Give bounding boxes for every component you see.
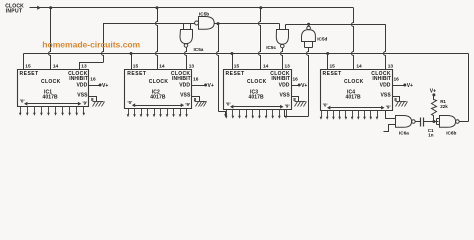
wire IC4 out9 to IC6a bbox=[386, 111, 396, 119]
label C1 value bbox=[428, 128, 434, 138]
wire clock bus bbox=[30, 7, 354, 9]
svg-text:V+: V+ bbox=[301, 83, 307, 89]
gate IC5a body bbox=[180, 30, 193, 44]
wire IC5a output to IC2 pin13 bbox=[185, 47, 187, 69]
svg-text:VSS: VSS bbox=[77, 92, 88, 98]
svg-text:14: 14 bbox=[263, 64, 269, 70]
svg-text:13: 13 bbox=[285, 64, 291, 70]
wire bus IC5b out to IC5c bbox=[219, 23, 280, 25]
wire IC5c right input bbox=[285, 25, 287, 30]
gate IC5c output bubble bbox=[281, 44, 285, 48]
svg-text:IC6a: IC6a bbox=[399, 131, 409, 136]
svg-text:CLOCK: CLOCK bbox=[247, 79, 267, 85]
svg-text:V+: V+ bbox=[407, 83, 413, 89]
svg-text:V+: V+ bbox=[430, 88, 436, 94]
svg-text:V+: V+ bbox=[102, 83, 108, 89]
wire IC6b out to reset riser bbox=[460, 121, 469, 123]
node clock-IC1 bbox=[49, 6, 52, 9]
clock input arrowhead bbox=[37, 6, 41, 10]
svg-text:IC6b: IC6b bbox=[446, 131, 456, 136]
op IC4 4017B counter box bbox=[321, 64, 394, 111]
svg-text:INHIBIT: INHIBIT bbox=[69, 76, 88, 82]
gate IC5a output bubble bbox=[184, 44, 188, 48]
wire IC5b output drop bbox=[217, 24, 226, 115]
svg-text:INHIBIT: INHIBIT bbox=[372, 76, 391, 82]
resistor R1 bbox=[432, 96, 437, 122]
svg-text:IC5c: IC5c bbox=[266, 45, 276, 50]
svg-text:14: 14 bbox=[159, 64, 165, 70]
svg-text:RESET: RESET bbox=[226, 71, 245, 77]
wire IC1 pin13 riser bbox=[80, 23, 104, 70]
svg-text:’9’: ’9’ bbox=[82, 101, 87, 106]
wire reset to IC2 pin15 bbox=[131, 54, 133, 70]
node reset-IC2 bbox=[130, 52, 133, 55]
svg-text:4017B: 4017B bbox=[150, 95, 166, 101]
IC3 outputs 0-9 arrows bbox=[225, 110, 287, 119]
wire clock to IC3 pin14 bbox=[259, 8, 261, 69]
watermark homemade-circuits.com bbox=[42, 40, 140, 50]
svg-text:R1: R1 bbox=[440, 99, 446, 104]
wire clock to IC2 pin14 bbox=[156, 8, 158, 69]
svg-text:1n: 1n bbox=[428, 133, 434, 138]
wire clock to IC1 pin14 bbox=[49, 8, 51, 69]
clock input label bbox=[5, 3, 24, 14]
wire bus IC5c to IC4 pin13 bbox=[286, 24, 386, 26]
gate IC5c body bbox=[276, 30, 288, 45]
svg-text:4017B: 4017B bbox=[43, 95, 59, 101]
gate IC6a body bbox=[396, 116, 412, 128]
svg-text:15: 15 bbox=[25, 64, 31, 70]
wire reset to IC3 pin15 bbox=[232, 54, 234, 70]
node clock-IC2 bbox=[156, 6, 159, 9]
capacitor C1 bbox=[421, 118, 424, 127]
IC2 pin8 VSS wire bbox=[192, 97, 200, 103]
svg-text:CLOCK: CLOCK bbox=[41, 79, 61, 85]
wire C1 to IC6b bbox=[424, 121, 439, 123]
svg-text:4017B: 4017B bbox=[249, 95, 265, 101]
svg-text:’0’: ’0’ bbox=[20, 98, 25, 103]
svg-text:15: 15 bbox=[133, 64, 139, 70]
svg-text:VDD: VDD bbox=[179, 83, 190, 89]
ground IC1 bbox=[93, 102, 105, 107]
IC2 pin16 VDD to V+ bbox=[192, 77, 214, 90]
arrow IC5b drop end bbox=[224, 114, 227, 117]
svg-text:’9’: ’9’ bbox=[185, 102, 190, 107]
wire IC6b input fork bbox=[437, 119, 440, 125]
IC1 pin16 VDD to V+ bbox=[89, 77, 109, 90]
svg-text:16: 16 bbox=[394, 77, 400, 83]
svg-text:INHIBIT: INHIBIT bbox=[172, 76, 191, 82]
ground IC2 bbox=[195, 102, 207, 107]
wire IC5d bubble stub bbox=[308, 25, 310, 27]
svg-text:13: 13 bbox=[81, 64, 87, 70]
wire IC5b output stub bbox=[215, 23, 219, 25]
svg-text:VSS: VSS bbox=[380, 92, 391, 98]
wire reset bus bbox=[24, 53, 469, 55]
IC4 pin8 VSS wire bbox=[393, 97, 400, 103]
svg-text:VDD: VDD bbox=[76, 83, 87, 89]
op IC3 4017B counter box bbox=[224, 64, 292, 110]
svg-text:IC5b: IC5b bbox=[199, 12, 209, 17]
wire IC5a left input bbox=[183, 24, 185, 30]
svg-text:’9’: ’9’ bbox=[386, 105, 391, 110]
ground IC4 bbox=[396, 102, 408, 107]
wire IC5c left input bbox=[279, 24, 281, 30]
svg-text:’0’: ’0’ bbox=[226, 101, 231, 106]
wire IC5c output to IC3 pin13 bbox=[281, 48, 283, 69]
IC4 pin16 VDD to V+ bbox=[393, 77, 414, 90]
svg-text:’0’: ’0’ bbox=[323, 102, 328, 107]
svg-text:INHIBIT: INHIBIT bbox=[271, 76, 290, 82]
svg-text:13: 13 bbox=[388, 64, 394, 70]
wire IC6a lower input bbox=[384, 125, 396, 132]
node IC5d output bbox=[307, 23, 310, 26]
ground IC3 bbox=[295, 102, 307, 107]
IC3 pin8 VSS wire bbox=[292, 97, 299, 103]
wire reset bus left drop IC1 pin15 bbox=[23, 54, 25, 70]
wire reset to IC4 pin15 bbox=[327, 54, 329, 70]
wire reset bus right drop bbox=[468, 54, 470, 122]
svg-text:CLOCK: CLOCK bbox=[149, 79, 169, 85]
node reset-IC4 bbox=[326, 52, 329, 55]
svg-text:VDD: VDD bbox=[380, 83, 391, 89]
wire bus IC1-pin13 to IC5b input bbox=[104, 23, 195, 25]
gate IC5b body bbox=[199, 17, 215, 30]
label IC6b bbox=[446, 131, 456, 136]
wire IC6a out to C1 bbox=[416, 121, 421, 123]
svg-text:VDD: VDD bbox=[279, 83, 290, 89]
svg-text:IC5d: IC5d bbox=[317, 36, 327, 41]
svg-text:’0’: ’0’ bbox=[127, 100, 132, 105]
svg-text:15: 15 bbox=[330, 64, 336, 70]
IC1 outputs 0-9 arrows bbox=[19, 107, 85, 116]
svg-text:13: 13 bbox=[189, 64, 195, 70]
svg-text:CLOCK: CLOCK bbox=[344, 79, 364, 85]
gate IC5b input bubble bbox=[195, 21, 199, 25]
IC4 outputs 0-9 arrows bbox=[320, 111, 379, 120]
svg-text:4017B: 4017B bbox=[346, 95, 362, 101]
gate IC6a output bubble bbox=[412, 120, 416, 124]
svg-text:RESET: RESET bbox=[127, 71, 146, 77]
svg-text:16: 16 bbox=[193, 77, 199, 83]
wire IC4 pin13 drop bbox=[384, 24, 386, 69]
gate IC6b output bubble bbox=[456, 120, 460, 124]
node R1 V+ bbox=[432, 93, 435, 96]
op IC1 4017B counter box bbox=[18, 64, 89, 107]
node R1-C1-IC6b bbox=[432, 120, 435, 123]
svg-text:IC5a: IC5a bbox=[194, 47, 204, 52]
wire IC5a right input bbox=[190, 24, 192, 30]
node IC5b output bbox=[217, 22, 220, 25]
wire IC5d input from IC3 out9 bbox=[285, 48, 309, 117]
svg-text:15: 15 bbox=[234, 64, 240, 70]
svg-text:INPUT: INPUT bbox=[6, 8, 23, 14]
svg-text:V+: V+ bbox=[208, 83, 214, 89]
op IC2 4017B counter box bbox=[125, 64, 195, 109]
wire IC5d inputs bbox=[305, 42, 313, 48]
IC3 pin16 VDD to V+ bbox=[292, 77, 308, 90]
node clock-IC3 bbox=[259, 6, 262, 9]
label IC5c bbox=[266, 45, 276, 50]
svg-text:RESET: RESET bbox=[20, 71, 39, 77]
svg-text:22k: 22k bbox=[440, 104, 448, 109]
svg-text:16: 16 bbox=[293, 77, 299, 83]
label IC5b bbox=[199, 12, 209, 17]
wire clock to IC4 pin14 bbox=[352, 8, 354, 69]
svg-text:VSS: VSS bbox=[180, 92, 191, 98]
label IC6a bbox=[399, 131, 409, 136]
svg-text:RESET: RESET bbox=[323, 71, 342, 77]
label R1 V+ bbox=[430, 88, 436, 94]
node reset-IC3 bbox=[231, 52, 234, 55]
svg-text:’9’: ’9’ bbox=[285, 104, 290, 109]
svg-text:VSS: VSS bbox=[279, 92, 290, 98]
label IC5d bbox=[317, 36, 327, 41]
label R1 bbox=[440, 99, 448, 109]
svg-text:14: 14 bbox=[53, 64, 59, 70]
IC1 pin8 VSS wire bbox=[89, 97, 97, 103]
svg-text:homemade-circuits.com: homemade-circuits.com bbox=[42, 40, 140, 50]
IC2 outputs 0-9 arrows bbox=[127, 109, 188, 118]
svg-text:14: 14 bbox=[356, 64, 362, 70]
gate IC6b body bbox=[440, 116, 456, 128]
gate IC5d output bubble bbox=[307, 26, 311, 30]
gate IC5d body bbox=[302, 30, 316, 42]
label IC5a bbox=[194, 47, 204, 52]
svg-text:16: 16 bbox=[90, 77, 96, 83]
